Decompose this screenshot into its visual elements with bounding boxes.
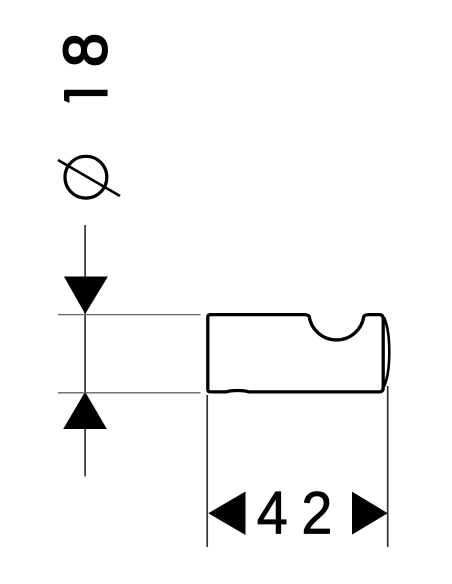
svg-text:42: 42 xyxy=(257,481,346,547)
extension line bottom (hook bottom edge) xyxy=(58,392,201,394)
dimension label "1" of Ø18 (drawn rotated) xyxy=(64,90,108,103)
svg-text:8: 8 xyxy=(51,33,119,67)
extension line right (42 dimension) xyxy=(387,386,389,547)
hook body outline xyxy=(208,315,383,392)
arrowhead down (top of Ø18 dimension) xyxy=(64,277,108,315)
extension line top (hook top edge) xyxy=(58,314,201,316)
extension line left (42 dimension) xyxy=(206,395,208,547)
arrowhead up (bottom of Ø18 dimension) xyxy=(63,392,107,429)
arrowhead right (42 dimension) xyxy=(352,492,388,535)
diameter symbol slash xyxy=(58,160,120,196)
arrowhead left (42 dimension) xyxy=(208,492,245,536)
diameter symbol circle xyxy=(65,156,107,198)
vertical dimension line xyxy=(84,225,86,476)
hook end cap arc xyxy=(384,317,389,386)
